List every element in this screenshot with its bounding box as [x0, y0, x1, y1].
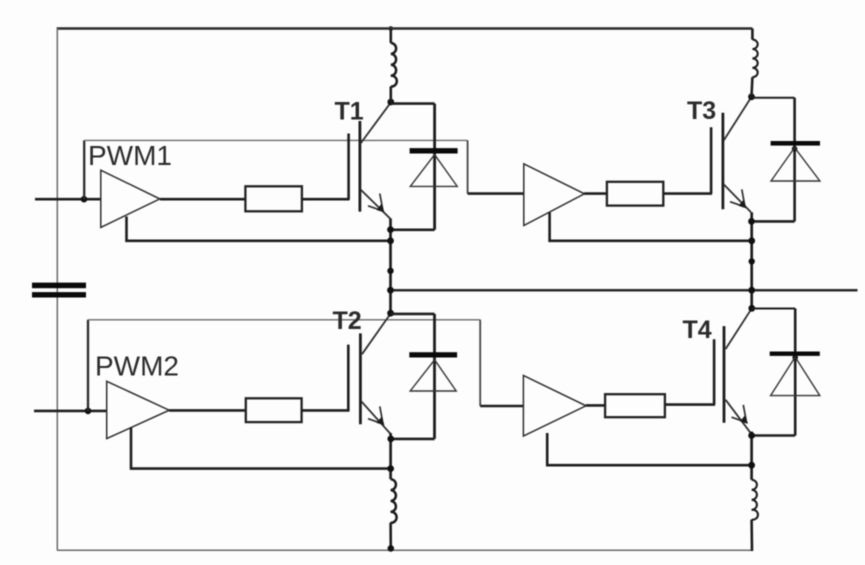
svg-text:PWM1: PWM1	[88, 140, 172, 171]
wire R4 to T4 gate	[665, 403, 715, 406]
wire T2 emitter to coil	[389, 433, 392, 479]
svg-text:T4: T4	[683, 316, 712, 344]
inductor L4	[752, 480, 758, 551]
node T2 emitter	[387, 436, 394, 443]
wire PWM1 right drop	[467, 140, 469, 193]
svg-text:PWM2: PWM2	[95, 350, 179, 381]
wire R2 to T3 gate	[663, 192, 712, 195]
op-amp U2 driver buffer	[524, 164, 585, 226]
wire feedback U3	[131, 428, 391, 469]
node mid stub	[387, 268, 393, 274]
node feedback2 join	[748, 237, 755, 244]
wire top DC rail	[57, 27, 753, 30]
inductor L1	[391, 29, 397, 103]
node bottom rail left	[388, 545, 395, 552]
resistor R2 gate	[607, 182, 663, 206]
resistor R1 gate	[245, 186, 302, 211]
node phase A rail	[387, 287, 394, 294]
node feedback4 join	[748, 462, 755, 469]
diode D4 freewheel	[752, 309, 820, 436]
node T3 collector	[748, 93, 755, 100]
node T4 emitter	[748, 432, 755, 439]
wire PWM1 input stub	[35, 198, 102, 201]
node phase B rail	[748, 287, 755, 294]
op-amp U1 driver buffer	[101, 170, 160, 227]
wire PWM2 box left vertical	[87, 320, 89, 411]
transistor Q T3 IGBT	[711, 97, 751, 212]
wire left leg phase vertical	[389, 219, 392, 314]
wire PWM2 thin top run	[88, 319, 480, 321]
wire U1 to R1	[160, 198, 246, 201]
node T1 collector	[387, 99, 394, 106]
capacitor C1 DC-link	[32, 283, 86, 298]
svg-text:T1: T1	[335, 98, 364, 126]
wire R3 to T2 gate	[302, 409, 350, 412]
wire R1 to T1 gate	[302, 198, 350, 201]
inductor L2	[752, 29, 758, 97]
wire into driver U2	[468, 192, 524, 195]
wire feedback U2	[550, 213, 752, 241]
op-amp U3 driver buffer	[107, 381, 170, 438]
wire U3 to R3	[169, 409, 246, 412]
diode D3 freewheel	[391, 314, 457, 439]
node PWM2 input junction	[85, 408, 92, 415]
node T1 emitter	[387, 226, 394, 233]
transistor Q T2 IGBT	[348, 314, 390, 434]
node feedback3 join	[387, 465, 394, 472]
op-amp U4 driver buffer	[523, 376, 586, 437]
wire mid output rail	[390, 289, 857, 292]
node PWM1 input junction	[81, 196, 88, 203]
wire right leg phase vertical	[750, 212, 753, 308]
svg-text:T2: T2	[333, 307, 362, 335]
wire PWM1 thin top run	[84, 139, 467, 141]
transistor Q T4 IGBT	[714, 308, 752, 432]
svg-text:T3: T3	[687, 97, 716, 125]
node mid stub right	[749, 258, 755, 264]
node T3 emitter	[748, 218, 755, 225]
transistor Q T1 IGBT	[349, 102, 391, 219]
resistor R3 gate	[246, 398, 302, 422]
wire PWM1 box left vertical	[83, 140, 85, 199]
wire PWM2 right drop	[479, 320, 481, 406]
node feedback1 join	[387, 237, 394, 244]
wire feedback U4	[547, 433, 752, 465]
node top rail tap	[388, 26, 393, 31]
wire U4 to R4	[586, 404, 605, 407]
wire T4 emitter to coil	[750, 432, 753, 480]
wire into driver U4	[480, 405, 523, 408]
node T4 collector	[748, 305, 755, 312]
wire PWM2 input stub	[34, 410, 107, 413]
diode D1 freewheel	[390, 104, 457, 230]
diode D2 freewheel	[751, 98, 820, 222]
wire U2 to R2	[584, 192, 607, 195]
node T2 collector	[387, 310, 394, 317]
wire bottom rail	[57, 549, 753, 551]
inductor L3	[391, 479, 397, 550]
wire left border	[56, 28, 58, 551]
resistor R4 gate	[605, 394, 665, 417]
wire feedback U1	[127, 217, 391, 241]
